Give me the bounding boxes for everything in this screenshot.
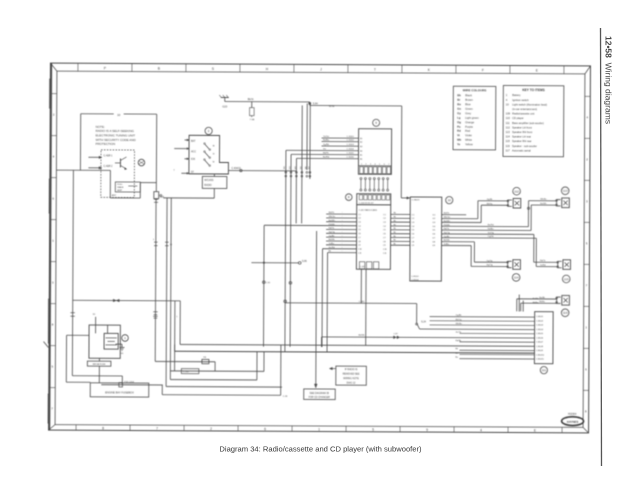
supply sub-box xyxy=(112,182,141,197)
battery earth G1 xyxy=(115,344,124,355)
svg-text:110: 110 xyxy=(506,116,511,120)
svg-text:Bu/Rd: Bu/Rd xyxy=(488,224,495,226)
svg-text:Bk: Bk xyxy=(394,216,396,218)
wires to speaker 113 xyxy=(529,199,557,205)
svg-text:1: 1 xyxy=(124,336,126,340)
svg-text:Grey: Grey xyxy=(465,111,472,115)
wire bundle down to fusebox xyxy=(166,198,181,387)
svg-text:1: 1 xyxy=(585,325,587,329)
svg-text:S.86: S.86 xyxy=(302,261,307,263)
svg-text:WAVE: WAVE xyxy=(117,186,124,189)
svg-text:C.851/4: C.851/4 xyxy=(411,279,419,281)
svg-text:~: ~ xyxy=(342,243,343,245)
wires to speaker 115 xyxy=(534,260,558,266)
svg-text:Yellow: Yellow xyxy=(465,142,473,146)
svg-text:111: 111 xyxy=(542,368,547,372)
earth wire down left xyxy=(70,170,123,385)
svg-text:G23: G23 xyxy=(222,105,227,108)
svg-text:C6: C6 xyxy=(358,233,361,235)
svg-text:Rd/Bu: Rd/Bu xyxy=(488,228,495,230)
svg-text:C.861: C.861 xyxy=(359,301,366,303)
svg-text:FULL: FULL xyxy=(117,184,123,186)
grid reference ticks top xyxy=(78,63,564,73)
svg-text:C.441 RADIO/CASS: C.441 RADIO/CASS xyxy=(359,209,378,212)
ignition switch sub box xyxy=(202,174,227,189)
svg-text:C8: C8 xyxy=(358,241,361,243)
svg-text:Brown: Brown xyxy=(465,98,473,102)
svg-text:C.250: C.250 xyxy=(183,371,190,373)
svg-text:BAT: BAT xyxy=(191,140,196,143)
note text block xyxy=(96,125,137,147)
svg-text:5: 5 xyxy=(51,365,53,369)
svg-text:3: 3 xyxy=(370,164,371,166)
svg-text:115: 115 xyxy=(564,277,569,281)
svg-text:C.305/1: C.305/1 xyxy=(347,136,355,138)
svg-text:Bk/Bu: Bk/Bu xyxy=(539,301,545,303)
svg-text:3: 3 xyxy=(52,281,54,285)
svg-text:302: 302 xyxy=(284,166,286,169)
svg-text:White: White xyxy=(465,138,472,142)
svg-text:ANT: ANT xyxy=(112,194,117,197)
svg-text:Violet: Violet xyxy=(465,133,472,137)
svg-text:Diagram 34: Radio/cassette and: Diagram 34: Radio/cassette and CD player… xyxy=(219,445,422,454)
supply wire from G23 xyxy=(225,98,310,102)
svg-text:D8: D8 xyxy=(433,241,436,243)
svg-text:5: 5 xyxy=(586,241,588,245)
svg-text:C5: C5 xyxy=(412,230,415,232)
svg-text:Gn: Gn xyxy=(457,107,461,111)
svg-text:AMP: AMP xyxy=(117,189,122,192)
wire junction to CD feed xyxy=(309,102,410,199)
svg-text:Og/Bk: Og/Bk xyxy=(444,236,451,238)
svg-text:B: B xyxy=(158,67,160,71)
svg-text:111: 111 xyxy=(506,121,511,125)
svg-text:Bu/Wh: Bu/Wh xyxy=(540,203,547,205)
svg-text:10: 10 xyxy=(448,198,452,202)
svg-text:S: S xyxy=(212,67,214,71)
svg-text:Green: Green xyxy=(465,107,473,111)
svg-text:Bu: Bu xyxy=(455,357,458,359)
svg-text:1: 1 xyxy=(506,93,508,97)
svg-text:Blue: Blue xyxy=(465,102,471,106)
svg-text:C4: C4 xyxy=(358,226,361,228)
engine fusebox boundary xyxy=(66,335,90,382)
svg-text:Gy/Og: Gy/Og xyxy=(486,264,493,266)
speaker feed verticals xyxy=(527,201,536,267)
svg-text:C11: C11 xyxy=(358,252,362,254)
svg-text:H: H xyxy=(266,67,269,71)
svg-text:~: ~ xyxy=(342,239,343,241)
svg-text:C1: C1 xyxy=(383,214,386,216)
labels rear feeds xyxy=(488,224,495,238)
svg-text:C9: C9 xyxy=(383,245,386,247)
svg-text:5: 5 xyxy=(379,164,380,166)
svg-text:Br: Br xyxy=(457,98,460,102)
svg-text:5: 5 xyxy=(372,428,374,432)
svg-text:C4: C4 xyxy=(412,226,415,228)
battery feed wires xyxy=(93,314,108,334)
svg-text:WIRING NOTE: WIRING NOTE xyxy=(343,378,359,380)
bass amplifier 111 xyxy=(534,312,553,374)
radio interference unit box 10 xyxy=(80,113,156,199)
wire across to fusebox xyxy=(73,299,181,316)
svg-text:C3: C3 xyxy=(358,222,361,224)
svg-text:C8: C8 xyxy=(383,241,386,243)
speaker sub-woofer 116 xyxy=(556,295,570,316)
splice S24 wire xyxy=(285,301,535,330)
svg-text:C2: C2 xyxy=(383,218,386,220)
svg-text:C.860/6: C.860/6 xyxy=(536,337,544,339)
svg-text:4: 4 xyxy=(480,428,482,432)
in-line connector marks on bundle xyxy=(153,239,179,318)
svg-text:E: E xyxy=(534,428,536,432)
svg-text:5: 5 xyxy=(153,239,155,241)
svg-text:Bk/Vt: Bk/Vt xyxy=(248,98,254,101)
publisher logo xyxy=(562,413,584,426)
svg-text:C11: C11 xyxy=(383,253,387,255)
svg-text:109: 109 xyxy=(506,112,511,116)
border frame outer xyxy=(43,63,590,433)
svg-text:7: 7 xyxy=(156,426,158,430)
svg-text:B3: B3 xyxy=(360,146,362,148)
svg-text:Bk: Bk xyxy=(457,93,461,97)
svg-text:Gy/Og: Gy/Og xyxy=(444,232,451,234)
svg-text:Ye: Ye xyxy=(457,142,461,146)
svg-text:Bk/Wh: Bk/Wh xyxy=(359,335,366,337)
svg-text:Bk: Bk xyxy=(394,236,396,238)
grid reference ticks left xyxy=(49,94,57,411)
svg-text:7: 7 xyxy=(173,170,175,172)
svg-text:Bu/Wh: Bu/Wh xyxy=(329,220,336,222)
wire bundle mid verticals xyxy=(263,103,310,352)
svg-text:C1: C1 xyxy=(412,214,415,216)
svg-text:C.860/3: C.860/3 xyxy=(536,325,544,327)
svg-text:RADIO: RADIO xyxy=(204,184,212,187)
svg-text:PROTECTION: PROTECTION xyxy=(96,142,116,146)
svg-text:Bu: Bu xyxy=(457,102,461,106)
bus wire to radio pin 4 xyxy=(264,224,356,226)
svg-text:(in-car entertainment): (in-car entertainment) xyxy=(512,107,537,111)
svg-text:C10: C10 xyxy=(358,249,363,251)
svg-text:1: 1 xyxy=(176,316,178,318)
svg-text:117: 117 xyxy=(506,148,511,152)
svg-text:B4: B4 xyxy=(360,151,362,153)
svg-text:6: 6 xyxy=(52,197,54,201)
svg-text:Speaker RH front: Speaker RH front xyxy=(512,130,532,134)
amp input wires xyxy=(429,315,534,359)
svg-text:Wh: Wh xyxy=(457,138,462,142)
svg-text:C.860/10: C.860/10 xyxy=(536,354,545,356)
svg-text:~: ~ xyxy=(342,212,343,214)
svg-text:C.860/8: C.860/8 xyxy=(536,346,544,348)
svg-text:12•58 Wiring diagrams: 12•58 Wiring diagrams xyxy=(604,36,614,124)
legend wire colours box xyxy=(453,86,496,150)
svg-text:C.860/1: C.860/1 xyxy=(536,316,544,318)
svg-text:C.AER 1: C.AER 1 xyxy=(103,154,113,157)
note box where fitted xyxy=(329,366,366,385)
svg-text:C.860/11: C.860/11 xyxy=(536,359,545,361)
svg-text:Gn/Rd: Gn/Rd xyxy=(328,247,335,249)
svg-text:C7: C7 xyxy=(412,237,415,239)
svg-text:6: 6 xyxy=(585,367,587,371)
svg-text:Wh/Bu: Wh/Bu xyxy=(456,323,463,325)
svg-text:Pk/Wh: Pk/Wh xyxy=(444,224,451,226)
earth wire with connector C87 xyxy=(321,333,534,348)
svg-text:Bu/Wh: Bu/Wh xyxy=(444,221,451,223)
svg-text:C4: C4 xyxy=(383,226,386,228)
svg-text:Bass amplifier (sub-woofer): Bass amplifier (sub-woofer) xyxy=(512,121,544,125)
svg-text:C.441: C.441 xyxy=(360,266,365,268)
svg-text:C.860/4: C.860/4 xyxy=(536,329,544,331)
svg-text:114: 114 xyxy=(506,135,511,139)
wires to speaker 116 xyxy=(517,297,557,312)
svg-text:Radio/cassette unit: Radio/cassette unit xyxy=(512,112,534,116)
fuse F8 xyxy=(202,357,209,364)
junction circles on verticals xyxy=(262,281,291,303)
radio cassette unit 109 xyxy=(356,205,390,270)
svg-text:Rd/Bk: Rd/Bk xyxy=(456,340,463,342)
svg-text:Gn/Og: Gn/Og xyxy=(488,232,495,234)
svg-text:116: 116 xyxy=(506,144,511,148)
svg-text:2: 2 xyxy=(365,164,366,166)
grid reference ticks right xyxy=(583,96,590,413)
side rule line xyxy=(601,28,602,466)
svg-text:322: 322 xyxy=(295,166,297,169)
svg-text:J: J xyxy=(320,67,322,71)
svg-text:15: 15 xyxy=(212,153,214,155)
svg-text:Bk: Bk xyxy=(394,243,396,245)
svg-text:Rd/Ye: Rd/Ye xyxy=(444,228,450,230)
svg-text:342: 342 xyxy=(305,166,307,169)
svg-text:Og/Gn: Og/Gn xyxy=(488,236,495,238)
speaker LH rear 114 xyxy=(507,260,521,282)
svg-text:T: T xyxy=(374,68,376,72)
wires to speaker 112 xyxy=(478,199,508,223)
svg-text:FOR CD CHANGER: FOR CD CHANGER xyxy=(309,396,331,399)
svg-text:7: 7 xyxy=(51,407,53,411)
svg-text:Speaker LH front: Speaker LH front xyxy=(512,125,532,129)
svg-text:3: 3 xyxy=(586,199,588,203)
svg-text:ACC: ACC xyxy=(191,150,196,153)
svg-text:B2: B2 xyxy=(360,142,362,144)
wire from frame into unit 10 xyxy=(56,169,110,171)
svg-text:Bk/Wh: Bk/Wh xyxy=(329,239,336,241)
svg-text:1: 1 xyxy=(361,164,362,166)
amp top feed wires xyxy=(519,295,539,312)
connector strip 8 xyxy=(345,194,390,205)
svg-text:C.850/1: C.850/1 xyxy=(412,199,420,201)
svg-text:Light green: Light green xyxy=(465,116,479,120)
svg-text:Og: Og xyxy=(457,120,461,124)
svg-text:Ignition switch: Ignition switch xyxy=(512,98,529,102)
svg-text:Vt: Vt xyxy=(457,133,460,137)
svg-text:352: 352 xyxy=(308,166,310,169)
svg-text:C3: C3 xyxy=(412,222,415,224)
svg-text:50: 50 xyxy=(212,161,214,163)
svg-text:9: 9 xyxy=(426,428,428,432)
svg-text:Bk: Bk xyxy=(394,220,396,222)
mega fuse strip xyxy=(87,358,111,383)
svg-text:9: 9 xyxy=(375,121,377,125)
svg-text:Speaker RH rear: Speaker RH rear xyxy=(512,139,532,143)
svg-text:C9: C9 xyxy=(412,245,415,247)
svg-text:115: 115 xyxy=(506,139,511,143)
svg-text:H32064: H32064 xyxy=(568,413,577,416)
fuse F22 on feed xyxy=(249,102,254,121)
svg-text:2: 2 xyxy=(210,427,212,431)
wires into radio left xyxy=(264,212,388,255)
connector label box C250 xyxy=(181,369,199,374)
svg-text:Bk/Og: Bk/Og xyxy=(456,319,463,321)
svg-text:114: 114 xyxy=(514,276,519,280)
svg-text:Wh/Bu: Wh/Bu xyxy=(540,199,547,201)
svg-text:C.AER 2: C.AER 2 xyxy=(103,165,113,168)
svg-text:C8: C8 xyxy=(412,241,415,243)
svg-text:C10: C10 xyxy=(383,249,388,251)
wires out of CD right xyxy=(442,213,537,246)
svg-text:C5: C5 xyxy=(358,229,361,231)
wires down from radio xyxy=(361,269,366,345)
svg-text:C.30: C.30 xyxy=(266,282,271,284)
svg-text:Wh/Gn: Wh/Gn xyxy=(329,216,336,218)
svg-text:Og/Gy: Og/Gy xyxy=(486,260,493,262)
svg-text:Gy/Og: Gy/Og xyxy=(329,232,336,234)
wires to speaker 114 xyxy=(471,242,508,267)
fuse F10 10A xyxy=(154,192,165,199)
svg-text:Bu/Rd: Bu/Rd xyxy=(323,157,330,159)
radio feed wire from ignition switch xyxy=(228,168,296,172)
svg-text:2: 2 xyxy=(586,157,588,161)
svg-text:7: 7 xyxy=(388,164,389,166)
svg-text:Og/Bk: Og/Bk xyxy=(456,315,463,317)
svg-text:~: ~ xyxy=(342,216,343,218)
aerial amplifier inner dashed box xyxy=(88,150,134,198)
svg-text:Bk: Bk xyxy=(394,224,396,226)
reference arrow to diagram 35 xyxy=(304,231,336,400)
svg-text:112: 112 xyxy=(514,189,519,193)
in-line connectors below block 9 xyxy=(360,178,389,192)
speaker RH rear 115 xyxy=(557,260,571,283)
wires down right of radio xyxy=(322,249,328,352)
svg-text:C5: C5 xyxy=(383,230,386,232)
svg-text:6: 6 xyxy=(384,164,385,166)
svg-text:C3: C3 xyxy=(383,222,386,224)
screened earth symbol xyxy=(138,159,145,166)
svg-text:D3: D3 xyxy=(433,222,436,224)
svg-text:DIAG 12: DIAG 12 xyxy=(347,382,357,385)
svg-text:2: 2 xyxy=(53,113,55,117)
svg-text:HAYNES: HAYNES xyxy=(567,420,579,424)
svg-text:C.305/5: C.305/5 xyxy=(346,153,354,155)
wires into ignition switch from left xyxy=(173,139,189,174)
svg-text:C.305/6: C.305/6 xyxy=(346,157,354,159)
svg-text:F8: F8 xyxy=(203,357,206,359)
svg-text:C.45: C.45 xyxy=(283,396,288,398)
svg-text:C.87: C.87 xyxy=(394,333,399,335)
svg-text:Og/Bk: Og/Bk xyxy=(329,235,336,237)
svg-text:Gn/Ye: Gn/Ye xyxy=(456,332,463,334)
wire vertical down from unit 10 xyxy=(154,199,157,362)
svg-text:4: 4 xyxy=(53,155,55,159)
svg-text:C2: C2 xyxy=(358,218,361,220)
svg-text:~: ~ xyxy=(342,232,343,234)
svg-text:7.5A: 7.5A xyxy=(250,118,255,121)
svg-text:C.860/2: C.860/2 xyxy=(536,320,544,322)
ignition switch 2 xyxy=(189,127,229,174)
svg-text:Automatic aerial: Automatic aerial xyxy=(512,148,531,152)
svg-text:332: 332 xyxy=(300,166,302,169)
svg-text:113: 113 xyxy=(563,189,568,193)
svg-text:Bk: Bk xyxy=(455,348,458,350)
svg-text:IGN: IGN xyxy=(191,159,195,161)
svg-text:D9: D9 xyxy=(433,245,436,247)
svg-text:G1: G1 xyxy=(120,353,124,355)
svg-text:7: 7 xyxy=(586,283,588,287)
svg-text:C6: C6 xyxy=(383,233,386,235)
svg-text:C7: C7 xyxy=(383,237,386,239)
ground G23 xyxy=(219,95,229,109)
svg-text:Gy: Gy xyxy=(457,111,461,115)
svg-text:312: 312 xyxy=(289,166,291,169)
svg-text:E: E xyxy=(536,69,538,73)
svg-text:Light switch (illumination fee: Light switch (illumination feed) xyxy=(512,102,547,106)
svg-text:~: ~ xyxy=(342,220,343,222)
svg-text:MEGA FUSE: MEGA FUSE xyxy=(93,363,106,366)
splice S84 xyxy=(309,102,335,108)
block 9 inner pin labels xyxy=(360,138,362,161)
fuse F19 on bus xyxy=(101,381,163,387)
svg-text:4: 4 xyxy=(375,164,376,166)
svg-text:10: 10 xyxy=(117,113,121,117)
svg-text:Ye/Gn: Ye/Gn xyxy=(323,136,330,138)
svg-text:Black: Black xyxy=(465,93,472,97)
svg-text:Lg: Lg xyxy=(457,116,461,120)
svg-text:Red: Red xyxy=(465,129,470,133)
branch wire below switch xyxy=(154,188,214,203)
engine bay fusebox label xyxy=(90,383,149,397)
svg-text:D4: D4 xyxy=(433,226,436,228)
svg-text:Bk: Bk xyxy=(394,228,396,230)
branch wire with splice S86 xyxy=(251,261,307,265)
svg-text:10: 10 xyxy=(506,102,509,106)
svg-text:C.305/4: C.305/4 xyxy=(347,149,355,151)
svg-text:C9: C9 xyxy=(358,245,361,247)
svg-text:4: 4 xyxy=(586,115,588,119)
svg-text:D6: D6 xyxy=(433,234,436,236)
svg-text:C.305/2: C.305/2 xyxy=(347,140,355,142)
svg-text:D7: D7 xyxy=(433,237,436,239)
svg-text:34: 34 xyxy=(170,244,173,246)
svg-text:8: 8 xyxy=(52,323,54,327)
svg-text:ENGINE BAY FUSEBOX: ENGINE BAY FUSEBOX xyxy=(105,390,134,394)
svg-text:S.84: S.84 xyxy=(313,102,319,105)
speaker RH front 113 xyxy=(556,187,570,208)
svg-text:KEY TO ITEMS: KEY TO ITEMS xyxy=(522,88,544,92)
svg-text:D1: D1 xyxy=(433,214,436,216)
svg-text:~: ~ xyxy=(341,251,342,253)
svg-text:Gy/Bk: Gy/Bk xyxy=(323,144,330,146)
CD bottom pins xyxy=(411,276,419,282)
svg-text:C1: C1 xyxy=(358,214,361,216)
svg-text:C.305/3: C.305/3 xyxy=(347,144,355,146)
svg-text:Ye/Rd: Ye/Rd xyxy=(540,265,546,267)
svg-text:Wh/Gn: Wh/Gn xyxy=(444,217,451,219)
earth bus wires xyxy=(155,344,534,396)
svg-text:Speaker - sub-woofer: Speaker - sub-woofer xyxy=(512,144,537,148)
svg-text:~: ~ xyxy=(342,228,343,230)
CD player 110 xyxy=(410,196,453,281)
radio bottom pins xyxy=(359,262,378,269)
